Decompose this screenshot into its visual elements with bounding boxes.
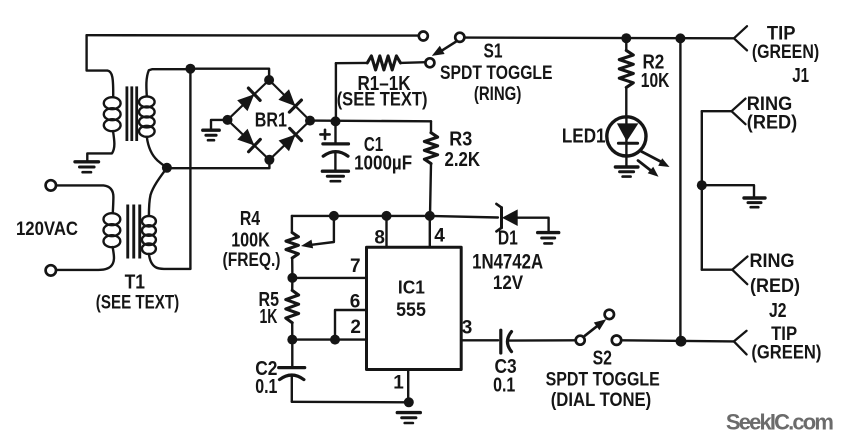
label (SEE TEXT) for T1 [96, 292, 179, 313]
diode BR1 lower-left (left vertex to bottom) [237, 129, 260, 152]
transformer T1 upper primary winding [104, 97, 121, 131]
label 10K [641, 70, 670, 92]
label C2 [255, 358, 277, 380]
label J1 [792, 65, 809, 87]
junction dot on J1 RING vertical [697, 180, 707, 190]
label R4 [240, 208, 261, 230]
svg-text:R4: R4 [240, 208, 261, 230]
wire R3 top lead [430, 121, 432, 132]
plus sign for C1 [320, 130, 329, 139]
wire pin 2 [292, 338, 366, 340]
jack J1 RING contact chevron [732, 99, 746, 125]
wire node B to BR1 bottom vertex [167, 160, 270, 168]
switch S1 common contact [455, 33, 464, 42]
ground at pin 1 [397, 413, 420, 423]
label SPDT TOGGLE for S2 [546, 369, 660, 390]
label 555 [396, 300, 426, 321]
wire T1 upper secondary top to node A [146, 69, 190, 96]
label TIP (J1) [767, 24, 796, 45]
svg-text:2.2K: 2.2K [445, 149, 481, 171]
label T1 [125, 272, 145, 294]
wire pin 4 lead [429, 216, 431, 247]
svg-text:(FREQ.): (FREQ.) [223, 250, 281, 271]
junction dot BR1 bottom vertex [264, 155, 274, 165]
label (FREQ.) [223, 250, 281, 271]
wire J1 RING vertical [701, 111, 703, 270]
pin label 4 [434, 226, 445, 247]
wire BR1 right vertex to R3 top (C1 node rail) [310, 119, 431, 122]
wire pin 6 to pin 2 [335, 310, 367, 340]
label (GREEN) (J1) [752, 42, 819, 63]
wire R2 bottom to LED1 [625, 87, 627, 118]
switch S2 pole contact [576, 336, 585, 345]
label (RED) (J2) [750, 276, 800, 297]
svg-text:SeekIC.com: SeekIC.com [726, 410, 834, 435]
svg-text:12V: 12V [493, 273, 524, 294]
node B junction dot [162, 163, 172, 173]
svg-text:RING: RING [750, 251, 795, 272]
svg-text:(GREEN): (GREEN) [752, 42, 819, 63]
wire D1 anode to ground [518, 218, 549, 232]
label TIP (J2) [771, 324, 797, 345]
svg-text:D1: D1 [498, 227, 518, 249]
svg-text:R3: R3 [449, 129, 472, 151]
junction dot at R5 bottom [287, 335, 297, 345]
wire C3 to S2 [508, 339, 576, 342]
switch S1 throw contact [425, 58, 434, 67]
jack J1 TIP contact chevron [734, 26, 747, 50]
wire C1 bottom to ground [334, 153, 336, 170]
label S1 [484, 41, 503, 63]
junction dot at R4 wiper branch [329, 211, 339, 221]
svg-text:S2: S2 [593, 347, 612, 369]
label 12V [493, 273, 524, 294]
svg-text:(RING): (RING) [474, 84, 522, 105]
svg-text:S1: S1 [484, 41, 503, 63]
transformer T1 upper core [126, 86, 139, 141]
label 1000uF [354, 153, 412, 175]
svg-text:(SEE TEXT): (SEE TEXT) [96, 292, 179, 313]
svg-text:4: 4 [434, 226, 445, 247]
label IC1 [398, 277, 425, 297]
svg-text:T1: T1 [125, 272, 145, 294]
svg-text:120VAC: 120VAC [16, 219, 78, 240]
label R3 [449, 129, 472, 151]
wire C1 top lead [334, 121, 336, 142]
ground below LED1 [615, 167, 638, 177]
wire node A down to T1 lower secondary bottom [189, 69, 191, 269]
transformer T1 lower core [126, 205, 141, 259]
label 2.2K [445, 149, 481, 171]
junction dot BR1 right vertex [305, 116, 315, 126]
svg-text:J2: J2 [769, 300, 787, 322]
bridge BR1 diamond outline [228, 80, 311, 160]
label 120VAC [16, 219, 78, 240]
svg-text:2: 2 [350, 317, 361, 338]
resistor R1 [367, 56, 400, 70]
diode BR1 upper-right (top to right vertex) [278, 89, 301, 112]
svg-text:SPDT TOGGLE: SPDT TOGGLE [546, 369, 660, 390]
terminal 120VAC bottom [46, 265, 56, 275]
label J2 [769, 300, 787, 322]
wire BR1 left vertex to ground [211, 120, 228, 129]
pin label 7 [350, 256, 361, 277]
wire S2 to J2 TIP [621, 340, 734, 341]
ground at D1 [538, 233, 559, 244]
label 0.1 for C3 [493, 375, 515, 397]
pin label 6 [350, 291, 361, 312]
LED LED1 circle [607, 117, 646, 156]
svg-text:1N4742A: 1N4742A [472, 251, 543, 274]
svg-text:555: 555 [396, 300, 426, 321]
label (DIAL TONE) [551, 390, 652, 411]
junction dot BR1 left vertex [223, 115, 233, 125]
LED1 light emission arrows [638, 152, 670, 177]
label (RED) (J1) [747, 113, 797, 134]
R4 wiper arrow [301, 216, 334, 249]
junction dot at R2 top [621, 33, 631, 43]
wire node A to BR1 top vertex [190, 69, 269, 80]
switch S2 upper throw contact [605, 310, 614, 319]
wire C2 top lead [291, 340, 293, 367]
junction dot at pin 7 [287, 273, 297, 283]
svg-text:1000µF: 1000µF [354, 153, 412, 175]
pin label 1 [393, 372, 404, 393]
wire node B to T1 lower secondary top [149, 168, 167, 216]
label RING (J2) [750, 251, 795, 272]
wire C2 bottom lead [291, 377, 293, 402]
transformer T1 upper secondary winding [139, 96, 155, 136]
ground for J1 RING [744, 198, 765, 207]
wire top rail right segment [464, 36, 734, 39]
wire T1 lower secondary bottom to vertical [149, 254, 191, 269]
svg-text:0.1: 0.1 [255, 376, 277, 398]
diode BR1 lower-right (bottom to right vertex) [279, 128, 302, 151]
wire T1 lower primary bottom to 120VAC bottom [56, 247, 114, 270]
wire R3 bottom lead [430, 164, 431, 216]
wire R5 top lead [291, 278, 294, 291]
svg-text:100K: 100K [231, 230, 270, 252]
wire R4 top lead [291, 216, 293, 233]
node A junction dot [185, 64, 195, 74]
wire to J1 ground [702, 185, 754, 197]
switch S2 right contact [612, 336, 621, 345]
wire vertical rail to J2 [679, 38, 681, 341]
label S2 [593, 347, 612, 369]
svg-text:(DIAL TONE): (DIAL TONE) [551, 390, 652, 411]
ground below C1 [322, 171, 348, 181]
label LED1 [562, 126, 606, 148]
wire LED1 cathode to ground [625, 156, 627, 166]
wire pin 7 [292, 277, 366, 279]
wire bottom rail to pin1 ground [292, 401, 409, 404]
pin label 3 [462, 317, 473, 338]
watermark SeekIC.com [726, 410, 834, 435]
label 1N4742A [472, 251, 543, 274]
svg-text:BR1: BR1 [255, 109, 287, 131]
jack J2 TIP contact chevron [734, 331, 747, 355]
junction dot at J2 branch [675, 33, 685, 43]
switch S1 pole contact (rail end) [419, 32, 428, 41]
svg-text:SPDT TOGGLE: SPDT TOGGLE [440, 63, 553, 84]
svg-text:IC1: IC1 [398, 277, 425, 297]
diode BR1 upper-left (left vertex to top) [237, 88, 260, 111]
wire J1 RING lead [702, 110, 732, 112]
wire pin 1 lead [407, 370, 409, 403]
wire pin 8 lead [385, 216, 387, 247]
label 0.1 for C2 [255, 376, 277, 398]
wire T1 upper primary bottom to ground [87, 131, 114, 161]
wire pin 3 [461, 339, 498, 341]
junction dot at J2 TIP branch [676, 336, 687, 347]
switch S1 lever arrow [432, 42, 456, 56]
svg-text:(SEE TEXT): (SEE TEXT) [337, 89, 428, 110]
transformer T1 lower secondary winding [142, 216, 156, 254]
junction dot at pin 4 / R3 [425, 211, 435, 221]
capacitor C1 plates [323, 144, 349, 156]
label (SEE TEXT) for R1 [337, 89, 428, 110]
label R2 [642, 51, 664, 73]
ground for T1 upper primary [75, 162, 99, 172]
wire top rail down to T1 upper primary top [87, 35, 114, 97]
wire R2 top lead [625, 38, 627, 50]
zener diode D1 [496, 204, 517, 232]
label C1 [364, 134, 383, 156]
svg-text:1K: 1K [259, 306, 277, 328]
label (GREEN) (J2) [751, 343, 821, 364]
svg-text:0.1: 0.1 [493, 375, 515, 397]
junction dot at C1 top [331, 116, 341, 126]
label SPDT TOGGLE for S1 [440, 63, 553, 84]
wire R1 right lead to S1 throw [401, 61, 426, 64]
wire mid rail (pin8/pin4/D1 node) [292, 216, 498, 218]
label R1-1K [358, 73, 411, 95]
svg-text:(GREEN): (GREEN) [751, 343, 821, 364]
pin label 2 [350, 317, 361, 338]
resistor R3 [424, 133, 437, 164]
label C3 [495, 356, 517, 378]
junction dot BR1 top vertex [264, 75, 274, 85]
wire R1 left lead [336, 62, 367, 65]
junction dot at pin 1 ground [404, 397, 414, 407]
jack J2 RING contact chevron [732, 257, 747, 285]
label D1 [498, 227, 518, 249]
resistor R5 [286, 290, 299, 322]
svg-text:J1: J1 [792, 65, 809, 87]
svg-text:6: 6 [350, 291, 361, 312]
svg-text:3: 3 [462, 317, 473, 338]
svg-text:10K: 10K [641, 70, 670, 92]
junction dot on pin 2 wire [330, 335, 340, 345]
switch S2 lever arrow [585, 319, 607, 336]
wire top rail left segment [87, 34, 419, 37]
svg-text:7: 7 [350, 256, 361, 277]
LED LED1 diode symbol [617, 118, 639, 156]
label BR1 [255, 109, 287, 131]
wire C1 node up to R1 [335, 63, 337, 121]
op-amp IC1 555 box [367, 247, 462, 369]
wire 120VAC top to T1 lower primary top [56, 185, 113, 213]
wire J2 RING lead [702, 269, 732, 271]
potentiometer R4 [286, 233, 298, 258]
capacitor C2 plates [279, 368, 305, 380]
resistor R2 [619, 50, 633, 87]
terminal 120VAC top [46, 180, 56, 190]
wire R4 bottom to pin 7 node [291, 258, 294, 278]
junction dot at pin 8 [382, 211, 392, 221]
svg-text:1: 1 [393, 372, 404, 393]
svg-text:8: 8 [374, 228, 385, 249]
svg-text:(RED): (RED) [747, 113, 797, 134]
label (RING) [474, 84, 522, 105]
wire T1 upper secondary bottom to node B [147, 137, 167, 168]
svg-text:(RED): (RED) [750, 276, 800, 297]
svg-text:LED1: LED1 [562, 126, 606, 148]
wire R5 bottom lead [291, 323, 293, 340]
pin label 8 [374, 228, 385, 249]
label 100K [231, 230, 270, 252]
label R5 [259, 289, 280, 311]
capacitor C3 plates [501, 330, 512, 353]
label 1K [259, 306, 277, 328]
transformer T1 lower primary winding [104, 213, 121, 247]
ground at BR1 left vertex [203, 130, 219, 140]
label RING (J1) [747, 94, 792, 115]
